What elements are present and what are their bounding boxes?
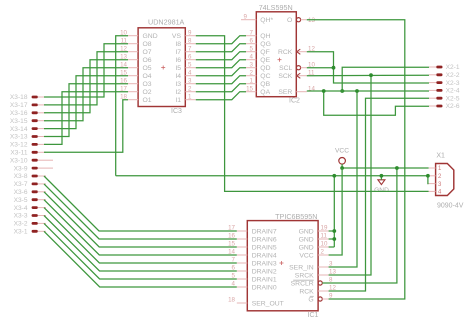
svg-text:X3-9: X3-9 [14,165,28,172]
svg-text:X3-10: X3-10 [10,157,28,164]
svg-text:X3-11: X3-11 [10,150,27,157]
svg-text:DRAIN0: DRAIN0 [252,284,277,291]
svg-text:X3-16: X3-16 [10,110,28,117]
svg-text:IC3: IC3 [171,108,182,115]
svg-text:O4: O4 [143,73,152,80]
svg-text:X3-14: X3-14 [10,126,28,133]
svg-text:SER_OUT: SER_OUT [252,300,284,307]
svg-text:IC2: IC2 [289,98,300,105]
svg-text:X3-4: X3-4 [14,205,28,212]
svg-text:X3-12: X3-12 [10,142,28,149]
svg-text:O5: O5 [143,65,152,72]
svg-text:5: 5 [250,45,254,52]
svg-text:I2: I2 [175,89,181,96]
svg-text:QH*: QH* [260,17,273,24]
svg-text:X2-6: X2-6 [446,103,460,110]
svg-text:IC1: IC1 [308,312,319,319]
svg-text:GND: GND [374,187,389,194]
svg-text:9: 9 [188,29,192,36]
svg-text:18: 18 [228,297,235,304]
svg-text:QG: QG [260,41,271,48]
svg-text:4: 4 [188,69,192,76]
svg-text:DRAIN2: DRAIN2 [252,268,277,275]
svg-text:QH: QH [260,33,270,40]
svg-text:QA: QA [260,89,270,96]
svg-text:2: 2 [321,249,325,256]
svg-text:I3: I3 [175,81,181,88]
svg-text:SRCK: SRCK [295,272,314,279]
svg-text:6: 6 [250,37,254,44]
svg-text:VCC: VCC [335,147,349,154]
svg-text:5: 5 [188,61,192,68]
svg-text:X3-5: X3-5 [14,197,28,204]
svg-text:X2-4: X2-4 [446,88,460,95]
svg-text:3: 3 [250,61,254,68]
svg-text:X3-17: X3-17 [10,102,28,109]
svg-text:GND: GND [143,33,158,40]
svg-text:GND: GND [299,236,314,243]
svg-text:GND: GND [299,228,314,235]
svg-text:13: 13 [308,17,315,24]
svg-text:QC: QC [260,73,270,80]
svg-text:X3-7: X3-7 [14,181,28,188]
svg-text:X3-3: X3-3 [14,213,28,220]
svg-text:X1: X1 [436,153,445,160]
svg-text:6: 6 [188,53,192,60]
svg-text:3: 3 [188,77,192,84]
svg-text:1: 1 [250,77,254,84]
svg-text:VS: VS [172,33,182,40]
svg-text:QF: QF [260,49,269,56]
svg-text:SCL: SCL [279,65,292,72]
svg-text:X3-6: X3-6 [14,189,28,196]
svg-text:X3-15: X3-15 [10,118,28,125]
svg-text:DRAIN7: DRAIN7 [252,228,277,235]
svg-text:O8: O8 [143,41,152,48]
svg-text:VCC: VCC [299,252,313,259]
svg-text:4: 4 [250,53,254,60]
svg-text:DRAIN3: DRAIN3 [252,260,277,267]
svg-text:G: G [308,296,313,303]
svg-text:9: 9 [244,13,248,20]
svg-text:8: 8 [188,37,192,44]
svg-text:19: 19 [321,225,328,232]
svg-text:O7: O7 [143,49,152,56]
svg-text:O6: O6 [143,57,152,64]
svg-text:RCK: RCK [299,288,314,295]
svg-text:11: 11 [321,233,328,240]
svg-text:DRAIN4: DRAIN4 [252,252,277,259]
svg-text:UDN2981A: UDN2981A [148,18,185,27]
svg-text:TPIC6B595N: TPIC6B595N [275,212,317,221]
svg-text:2: 2 [250,69,254,76]
svg-text:I7: I7 [175,49,181,56]
svg-text:I5: I5 [175,65,181,72]
svg-text:X2-3: X2-3 [446,80,460,87]
svg-text:X3-18: X3-18 [10,94,28,101]
svg-text:O3: O3 [143,81,152,88]
svg-text:X3-1: X3-1 [14,229,28,236]
svg-text:74LS595N: 74LS595N [259,3,293,12]
svg-text:X3-8: X3-8 [14,173,28,180]
svg-text:X3-2: X3-2 [14,221,28,228]
svg-text:O: O [287,17,292,24]
svg-text:15: 15 [246,85,253,92]
svg-text:9090-4V: 9090-4V [437,203,464,210]
svg-text:DRAIN6: DRAIN6 [252,236,277,243]
svg-text:SCK: SCK [278,73,292,80]
svg-text:I1: I1 [175,97,181,104]
svg-text:X2-1: X2-1 [446,64,460,71]
svg-text:7: 7 [188,45,192,52]
svg-text:7: 7 [250,29,254,36]
svg-text:O2: O2 [143,89,152,96]
svg-text:O1: O1 [143,97,152,104]
svg-text:QB: QB [260,81,270,88]
svg-text:QE: QE [260,57,270,64]
svg-text:2: 2 [188,85,192,92]
svg-text:RCK: RCK [278,49,293,56]
svg-text:SER_IN: SER_IN [289,264,314,271]
svg-text:SRCLR: SRCLR [291,280,314,287]
svg-text:QD: QD [260,65,270,72]
svg-text:1: 1 [188,93,192,100]
svg-text:10: 10 [321,241,328,248]
svg-text:I6: I6 [175,57,181,64]
svg-text:DRAIN5: DRAIN5 [252,244,277,251]
svg-text:X2-2: X2-2 [446,72,460,79]
svg-text:X2-5: X2-5 [446,95,460,102]
svg-text:X3-13: X3-13 [10,134,28,141]
svg-text:I4: I4 [175,73,181,80]
svg-text:SER: SER [278,89,292,96]
svg-text:I8: I8 [175,41,181,48]
svg-text:DRAIN1: DRAIN1 [252,276,277,283]
svg-text:GND: GND [299,244,314,251]
